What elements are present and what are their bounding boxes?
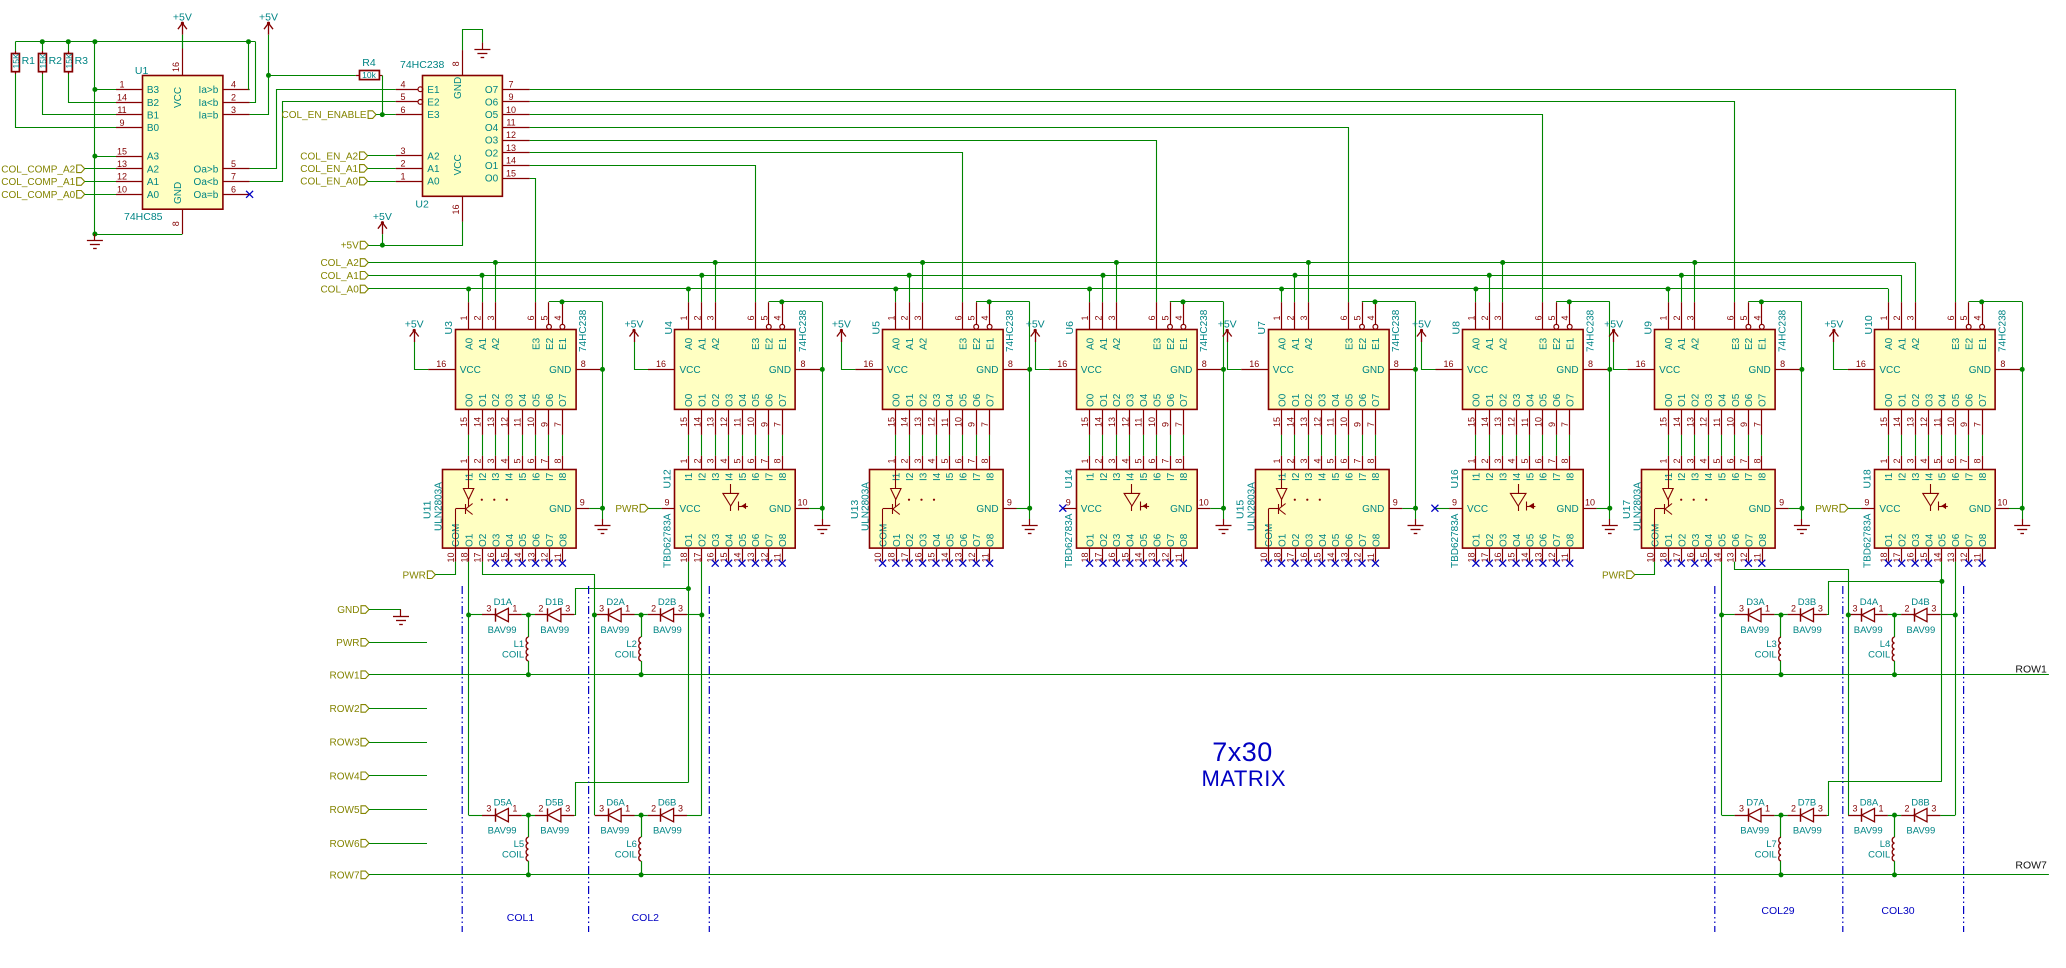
svg-text:11: 11	[773, 553, 783, 562]
svg-text:3: 3	[678, 604, 683, 614]
wire U9 O7 to driver I8	[1761, 435, 1763, 456]
svg-text:COIL: COIL	[1755, 849, 1777, 860]
svg-text:R2: R2	[49, 55, 63, 67]
svg-text:U10: U10	[1863, 315, 1875, 334]
svg-text:O0: O0	[892, 393, 903, 407]
svg-text:17: 17	[1672, 552, 1682, 562]
svg-text:O1: O1	[684, 533, 695, 547]
svg-text:6: 6	[1726, 458, 1736, 463]
svg-text:74HC238: 74HC238	[798, 309, 809, 352]
svg-text:I3: I3	[1911, 472, 1922, 481]
svg-text:O2: O2	[1691, 393, 1702, 407]
svg-text:2: 2	[538, 604, 543, 614]
svg-text:O3: O3	[491, 533, 502, 547]
svg-text:O1: O1	[485, 161, 499, 172]
svg-text:A1: A1	[698, 337, 709, 350]
resistor R4 10k	[356, 57, 383, 80]
power +5V (U9 VCC)	[1604, 319, 1627, 370]
svg-text:O6: O6	[1358, 393, 1369, 407]
svg-text:7: 7	[967, 458, 977, 463]
svg-text:3: 3	[565, 604, 570, 614]
svg-text:I5: I5	[1525, 472, 1536, 481]
svg-text:16: 16	[913, 552, 923, 562]
svg-text:3: 3	[1493, 458, 1503, 463]
svg-text:U7: U7	[1256, 321, 1268, 335]
wire U7 O0 to driver I1	[1281, 435, 1283, 456]
column separator	[461, 586, 463, 932]
resistor R3 15K	[64, 51, 88, 74]
label COL_A2	[320, 258, 368, 269]
wire U6 O2 to driver I3	[1116, 435, 1118, 456]
svg-text:1: 1	[512, 804, 517, 814]
svg-text:I6: I6	[959, 472, 970, 481]
svg-text:7: 7	[508, 79, 513, 89]
svg-text:16: 16	[436, 359, 446, 369]
wire U10 O1 to driver I2	[1901, 435, 1903, 456]
svg-text:18: 18	[1080, 552, 1090, 562]
svg-text:7: 7	[1739, 458, 1749, 463]
svg-text:E3: E3	[1344, 337, 1355, 350]
comparator U1 74HC85	[116, 49, 250, 235]
svg-text:9: 9	[540, 422, 550, 427]
wire U9 O5 to driver I6	[1734, 435, 1736, 456]
bus wire COL_A0	[368, 287, 1888, 303]
svg-text:10: 10	[1199, 498, 1209, 508]
column separator	[588, 586, 590, 932]
inductor L8 COIL	[1868, 813, 1897, 878]
svg-text:COL_EN_A0: COL_EN_A0	[300, 177, 358, 188]
power +5V (U7 VCC)	[1218, 319, 1241, 370]
label ROW7	[330, 871, 2049, 882]
svg-text:A2: A2	[1112, 337, 1123, 350]
svg-text:O3: O3	[711, 533, 722, 547]
svg-text:16: 16	[1249, 359, 1259, 369]
svg-text:4: 4	[1120, 458, 1130, 463]
svg-text:ROW6: ROW6	[330, 839, 360, 850]
svg-text:O0: O0	[1472, 393, 1483, 407]
svg-text:1: 1	[625, 804, 630, 814]
svg-text:BAV99: BAV99	[600, 625, 629, 636]
svg-text:16: 16	[863, 359, 873, 369]
svg-text:D8A: D8A	[1860, 797, 1879, 808]
svg-text:ULN2803A: ULN2803A	[861, 482, 872, 531]
svg-text:6: 6	[1147, 315, 1157, 320]
power +5V (U2 VCC +5VD)	[373, 211, 392, 245]
svg-text:8: 8	[1560, 458, 1570, 463]
svg-text:VCC: VCC	[453, 154, 464, 175]
svg-text:GND: GND	[1969, 504, 1991, 515]
svg-text:15K: 15K	[11, 53, 21, 68]
svg-text:COL29: COL29	[1761, 905, 1794, 917]
svg-text:Ia>b: Ia>b	[199, 85, 219, 96]
svg-text:GND: GND	[549, 504, 571, 515]
svg-text:O1: O1	[1898, 393, 1909, 407]
svg-text:9: 9	[759, 422, 769, 427]
svg-text:5: 5	[1932, 458, 1942, 463]
ground (U9)	[1794, 519, 1810, 534]
wire U9 O2 to driver I3	[1694, 435, 1696, 456]
svg-text:I5: I5	[738, 472, 749, 481]
svg-text:E1: E1	[1978, 337, 1989, 350]
svg-text:3: 3	[1906, 458, 1916, 463]
svg-text:7: 7	[1547, 458, 1557, 463]
svg-text:GND: GND	[1362, 504, 1384, 515]
svg-text:ROW3: ROW3	[330, 738, 360, 749]
svg-text:8: 8	[980, 458, 990, 463]
svg-text:I6: I6	[1731, 472, 1742, 481]
wire U3 O6 to driver I7	[548, 435, 550, 456]
svg-text:COL_A0: COL_A0	[320, 285, 359, 296]
svg-text:GND: GND	[1556, 504, 1578, 515]
svg-text:1: 1	[1272, 458, 1282, 463]
svg-text:14: 14	[117, 92, 127, 102]
svg-text:16: 16	[1856, 359, 1866, 369]
svg-text:74HC238: 74HC238	[1199, 309, 1210, 352]
svg-text:10: 10	[1339, 417, 1349, 427]
svg-text:O6: O6	[765, 393, 776, 407]
svg-text:B3: B3	[147, 85, 160, 96]
svg-text:12: 12	[1547, 552, 1557, 562]
svg-text:COL_EN_A2: COL_EN_A2	[300, 151, 358, 162]
svg-text:I5: I5	[1938, 472, 1949, 481]
label ROW7 (right)	[2015, 860, 2047, 872]
svg-text:COL_COMP_A1: COL_COMP_A1	[1, 177, 75, 188]
svg-text:O4: O4	[738, 393, 749, 407]
svg-text:I1: I1	[1884, 472, 1895, 481]
svg-text:11: 11	[1712, 418, 1722, 427]
svg-text:16: 16	[1299, 552, 1309, 562]
svg-text:18: 18	[1466, 552, 1476, 562]
svg-text:2: 2	[692, 315, 702, 320]
svg-text:VCC: VCC	[1467, 504, 1488, 515]
svg-text:3: 3	[1818, 604, 1823, 614]
svg-text:3: 3	[486, 604, 491, 614]
svg-text:14: 14	[513, 552, 523, 562]
label COL_EN_A0	[300, 177, 396, 188]
svg-text:9: 9	[1779, 498, 1784, 508]
svg-text:6: 6	[1946, 315, 1956, 320]
wire U5 O4 to driver I5	[949, 435, 951, 456]
inductor L4 COIL	[1868, 613, 1897, 678]
svg-text:O5: O5	[485, 110, 499, 121]
svg-text:A2: A2	[427, 151, 440, 162]
svg-text:O5: O5	[738, 533, 749, 547]
svg-text:A1: A1	[1485, 337, 1496, 350]
svg-text:10: 10	[1726, 417, 1736, 427]
svg-text:7: 7	[759, 458, 769, 463]
decoder U3 74HC238	[428, 302, 602, 435]
svg-text:14: 14	[1134, 552, 1144, 562]
svg-text:O3: O3	[485, 136, 499, 147]
ground (U3)	[595, 519, 611, 534]
svg-text:9: 9	[664, 498, 669, 508]
svg-text:1: 1	[679, 315, 689, 320]
svg-text:11: 11	[940, 418, 950, 427]
driver U11 ULN2803A	[422, 456, 590, 563]
svg-text:16: 16	[1493, 552, 1503, 562]
wire U9 O1 to driver I2	[1681, 435, 1683, 456]
svg-text:E3: E3	[1951, 337, 1962, 350]
svg-text:A1: A1	[1291, 337, 1302, 350]
svg-text:O1: O1	[1677, 393, 1688, 407]
svg-text:I1: I1	[1472, 472, 1483, 481]
svg-text:7: 7	[1161, 458, 1171, 463]
svg-text:O1: O1	[905, 393, 916, 407]
svg-text:7: 7	[1366, 422, 1376, 427]
svg-text:5: 5	[1353, 315, 1363, 320]
svg-text:D6B: D6B	[658, 797, 676, 808]
no-connects U14 O1-O8	[1086, 560, 1187, 567]
svg-text:1: 1	[625, 604, 630, 614]
wire U10 O6 to driver I7	[1968, 435, 1970, 456]
svg-text:COIL: COIL	[1755, 649, 1777, 660]
svg-text:11: 11	[506, 118, 515, 128]
wire U7 O6 to driver I7	[1362, 435, 1364, 456]
svg-text:I8: I8	[1978, 472, 1989, 481]
svg-text:18: 18	[679, 552, 689, 562]
svg-text:COL_EN_A1: COL_EN_A1	[300, 164, 358, 175]
svg-text:15: 15	[1879, 417, 1889, 427]
svg-text:16: 16	[706, 552, 716, 562]
svg-text:1: 1	[1765, 604, 1770, 614]
svg-text:O5: O5	[1344, 393, 1355, 407]
svg-text:U11: U11	[422, 500, 434, 519]
svg-text:COL_EN_ENABLE: COL_EN_ENABLE	[282, 110, 367, 121]
svg-text:16: 16	[451, 204, 461, 214]
svg-text:E1: E1	[1758, 337, 1769, 350]
wire U8 O0 to driver I1	[1475, 435, 1477, 456]
svg-text:I1: I1	[1085, 472, 1096, 481]
svg-text:4: 4	[400, 79, 405, 89]
svg-text:E1: E1	[985, 337, 996, 350]
svg-text:13: 13	[486, 417, 496, 427]
ground (U4)	[814, 519, 830, 534]
wire Ia=b to +5V	[250, 35, 271, 115]
svg-text:18: 18	[1659, 552, 1669, 562]
svg-text:8: 8	[1394, 359, 1399, 369]
svg-text:PWR: PWR	[1815, 504, 1838, 515]
svg-text:BAV99: BAV99	[488, 625, 517, 636]
svg-text:BAV99: BAV99	[1740, 825, 1769, 836]
svg-text:I2: I2	[1898, 472, 1909, 481]
svg-text:15: 15	[1313, 552, 1323, 562]
svg-text:U8: U8	[1451, 321, 1463, 335]
resistor R2 15K	[38, 51, 62, 74]
svg-text:17: 17	[692, 552, 702, 562]
svg-text:74HC238: 74HC238	[1998, 309, 2009, 352]
label ROW6	[330, 839, 428, 850]
wire U8 O6 to driver I7	[1556, 435, 1558, 456]
svg-text:O3: O3	[505, 393, 516, 407]
wire U18 O6 to COL30 right	[1940, 562, 1957, 816]
driver U16 TBD62783A	[1449, 456, 1597, 568]
svg-text:4: 4	[1973, 315, 1983, 320]
svg-text:17: 17	[473, 552, 483, 562]
svg-text:7: 7	[1959, 458, 1969, 463]
svg-text:12: 12	[506, 130, 516, 140]
svg-text:3: 3	[706, 315, 716, 320]
svg-text:Oa<b: Oa<b	[194, 177, 219, 188]
svg-text:O6: O6	[751, 533, 762, 547]
wire U4 O2 to driver I3	[715, 435, 717, 456]
svg-text:2: 2	[651, 604, 656, 614]
svg-text:VCC: VCC	[1081, 365, 1102, 376]
svg-text:O3: O3	[1112, 533, 1123, 547]
power +5V (U3 VCC)	[405, 319, 428, 370]
svg-text:4: 4	[1366, 315, 1376, 320]
svg-text:PWR: PWR	[615, 504, 638, 515]
svg-text:I5: I5	[1331, 472, 1342, 481]
svg-text:E3: E3	[1539, 337, 1550, 350]
svg-text:6: 6	[526, 315, 536, 320]
svg-text:O5: O5	[1938, 533, 1949, 547]
svg-text:1: 1	[886, 315, 896, 320]
svg-text:A3: A3	[147, 152, 160, 163]
svg-text:2: 2	[1904, 604, 1909, 614]
svg-text:I8: I8	[778, 472, 789, 481]
svg-text:9: 9	[1007, 498, 1012, 508]
svg-text:O6: O6	[1744, 393, 1755, 407]
svg-text:3: 3	[1299, 458, 1309, 463]
svg-text:I2: I2	[478, 472, 489, 481]
wire U17 GND to ground net	[1789, 508, 1802, 510]
svg-text:8: 8	[2000, 359, 2005, 369]
label ROW3	[330, 738, 428, 749]
diode D8A BAV99	[1848, 797, 1940, 836]
bus wire COL_A1	[368, 273, 1901, 302]
svg-text:VCC: VCC	[1659, 365, 1680, 376]
svg-text:15: 15	[1080, 417, 1090, 427]
svg-text:BAV99: BAV99	[653, 625, 682, 636]
svg-text:17: 17	[1094, 552, 1104, 562]
svg-text:O6: O6	[1166, 393, 1177, 407]
wire U10 O5 to driver I6	[1955, 435, 1957, 456]
label PWR (U11 COM)	[403, 562, 456, 582]
svg-text:12: 12	[719, 417, 729, 427]
svg-text:GND: GND	[1749, 504, 1771, 515]
svg-text:12: 12	[499, 417, 509, 427]
svg-text:O5: O5	[1152, 393, 1163, 407]
wire U2 O2 to U5 E3	[530, 153, 963, 303]
svg-text:2: 2	[692, 458, 702, 463]
driver U17 ULN2803A	[1621, 456, 1789, 563]
svg-text:O1: O1	[1099, 393, 1110, 407]
svg-text:4: 4	[1560, 315, 1570, 320]
svg-text:COM: COM	[1264, 524, 1275, 547]
svg-text:13: 13	[1685, 417, 1695, 427]
svg-text:ULN2803A: ULN2803A	[433, 482, 444, 531]
svg-text:D4B: D4B	[1911, 597, 1929, 608]
svg-text:5: 5	[1520, 458, 1530, 463]
svg-text:I4: I4	[1704, 472, 1715, 481]
power +5V (U10 VCC)	[1824, 319, 1847, 370]
svg-text:14: 14	[1480, 417, 1490, 427]
svg-text:10: 10	[746, 417, 756, 427]
svg-text:6: 6	[1533, 315, 1543, 320]
svg-text:GND: GND	[976, 365, 998, 376]
wire U4 O3 to driver I4	[728, 435, 730, 456]
svg-text:+5V: +5V	[173, 11, 192, 23]
svg-text:3: 3	[1107, 315, 1117, 320]
wire U1 Oa>b to U2 E1	[250, 90, 396, 169]
svg-text:O2: O2	[918, 393, 929, 407]
svg-text:COM: COM	[1651, 524, 1662, 547]
wire U3 O3 to driver I4	[508, 435, 510, 456]
svg-text:2: 2	[1791, 804, 1796, 814]
svg-text:O1: O1	[698, 393, 709, 407]
svg-text:O4: O4	[945, 393, 956, 407]
wire U3 E1 E2 to GND net	[549, 299, 605, 519]
svg-text:15: 15	[1919, 552, 1929, 562]
wire U8 O5 to driver I6	[1542, 435, 1544, 456]
svg-text:6: 6	[953, 458, 963, 463]
svg-text:E2: E2	[1965, 337, 1976, 350]
svg-text:6: 6	[231, 185, 236, 195]
svg-text:10: 10	[1533, 417, 1543, 427]
svg-text:E3: E3	[959, 337, 970, 350]
column separator	[1963, 586, 1965, 932]
svg-text:16: 16	[1906, 552, 1916, 562]
svg-text:7: 7	[553, 422, 563, 427]
svg-text:ROW7: ROW7	[330, 871, 360, 882]
svg-text:O2: O2	[478, 533, 489, 547]
svg-text:I7: I7	[1358, 472, 1369, 481]
svg-text:O0: O0	[1085, 393, 1096, 407]
wire U4 O1 to driver I2	[701, 435, 703, 456]
svg-text:12: 12	[1919, 417, 1929, 427]
svg-text:E1: E1	[1371, 337, 1382, 350]
svg-text:I1: I1	[1277, 472, 1288, 481]
svg-text:COIL: COIL	[1868, 849, 1890, 860]
svg-text:3: 3	[1852, 804, 1857, 814]
svg-text:R1: R1	[22, 55, 36, 67]
svg-text:14: 14	[1286, 417, 1296, 427]
svg-text:BAV99: BAV99	[600, 825, 629, 836]
wire U4 O4 to driver I5	[742, 435, 744, 456]
svg-text:I2: I2	[1291, 472, 1302, 481]
label COL_COMP_A0	[1, 190, 116, 201]
inductor L3 COIL	[1755, 613, 1784, 678]
svg-text:A2: A2	[491, 337, 502, 350]
svg-text:O1: O1	[1664, 533, 1675, 547]
no-connect U1 pin6	[246, 191, 253, 198]
svg-text:10: 10	[1645, 552, 1655, 562]
svg-text:6: 6	[746, 458, 756, 463]
svg-text:U12: U12	[662, 469, 674, 488]
svg-text:GND: GND	[1556, 365, 1578, 376]
wire U9 O3 to driver I4	[1708, 435, 1710, 456]
svg-text:TBD62783A: TBD62783A	[1863, 513, 1874, 568]
svg-text:A2: A2	[1499, 337, 1510, 350]
svg-text:I5: I5	[1717, 472, 1728, 481]
svg-text:9: 9	[580, 498, 585, 508]
svg-text:I2: I2	[1485, 472, 1496, 481]
svg-text:O1: O1	[1472, 533, 1483, 547]
svg-text:O6: O6	[1552, 393, 1563, 407]
wire U4 O7 to driver I8	[782, 435, 784, 456]
svg-text:D2A: D2A	[606, 597, 625, 608]
svg-text:BAV99: BAV99	[1906, 825, 1935, 836]
svg-text:O1: O1	[1278, 533, 1289, 547]
wire U9 E1 E2 to GND net	[1748, 299, 1804, 519]
svg-text:5: 5	[400, 92, 405, 102]
svg-text:9: 9	[1353, 422, 1363, 427]
svg-text:VCC: VCC	[1273, 365, 1294, 376]
svg-text:2: 2	[900, 458, 910, 463]
svg-text:6: 6	[746, 315, 756, 320]
svg-text:O4: O4	[1938, 393, 1949, 407]
svg-text:16: 16	[486, 552, 496, 562]
